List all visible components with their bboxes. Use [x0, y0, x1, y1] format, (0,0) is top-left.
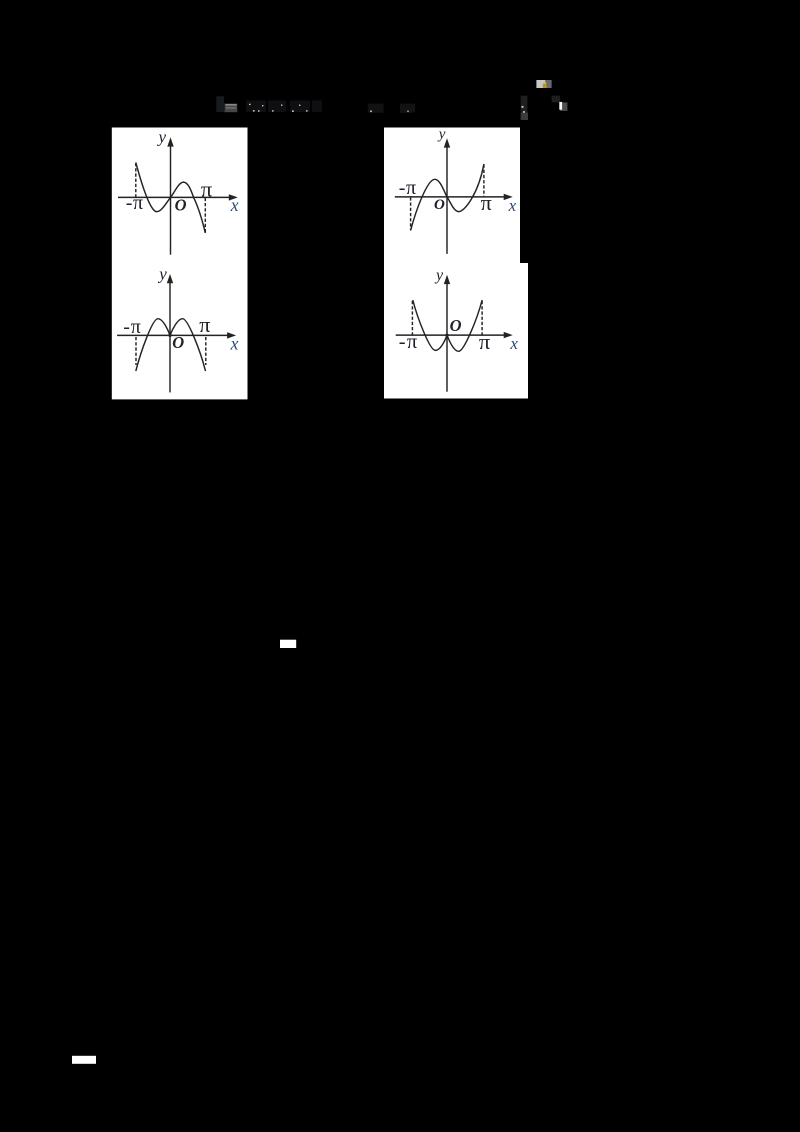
- white dash mid-page: [280, 640, 296, 648]
- D dashed line at -pi: [411, 301, 413, 335]
- B x-axis: [395, 196, 506, 198]
- A dashed line at -pi: [135, 163, 137, 197]
- white dash bottom-left: [72, 1056, 96, 1064]
- faint question text residue: middle glyphs: [368, 104, 415, 113]
- svg-text:y: y: [437, 127, 446, 143]
- C x-axis: [117, 334, 229, 336]
- svg-text:-π: -π: [399, 331, 419, 353]
- svg-text:π: π: [199, 312, 210, 337]
- svg-text:O: O: [175, 195, 187, 214]
- A x-axis: [118, 196, 231, 198]
- D y-axis: [446, 282, 448, 392]
- C curve: [136, 319, 206, 371]
- D y-axis arrowhead: [444, 275, 450, 284]
- D curve: [413, 300, 482, 351]
- white panel left (options A and C): [112, 128, 248, 400]
- D origin dot: [445, 334, 448, 337]
- faint question text residue: block 1: [216, 96, 224, 112]
- svg-text:O: O: [172, 333, 184, 352]
- svg-text:x: x: [508, 196, 517, 215]
- svg-text:π: π: [201, 176, 213, 201]
- C dashed line at -pi: [135, 337, 137, 365]
- A y-axis: [170, 144, 172, 255]
- B curve: [411, 164, 484, 231]
- svg-text:x: x: [509, 334, 518, 353]
- svg-text:-π: -π: [123, 316, 141, 338]
- B y-axis: [446, 145, 448, 254]
- A dashed line at +pi: [204, 198, 206, 233]
- D x-axis arrowhead: [504, 332, 513, 338]
- svg-text:-π: -π: [126, 192, 144, 214]
- svg-text:π: π: [481, 190, 492, 215]
- B dashed line at +pi: [483, 165, 485, 197]
- B y-axis arrowhead: [444, 138, 450, 147]
- A curve: [136, 163, 206, 234]
- svg-text:O: O: [450, 316, 462, 335]
- svg-text:O: O: [434, 197, 445, 213]
- toolbar-like light bar with yellow mark (top right): [536, 80, 551, 88]
- svg-text:x: x: [230, 334, 239, 354]
- svg-text:-π: -π: [399, 177, 417, 199]
- C y-axis arrowhead: [167, 274, 173, 283]
- svg-text:y: y: [434, 267, 444, 284]
- svg-text:x: x: [230, 195, 239, 215]
- C y-axis: [169, 281, 171, 392]
- C dashed line at +pi: [205, 337, 207, 365]
- faint question text residue: speckled glyphs left: [246, 101, 322, 113]
- faint question text residue: highlighted equals block: [225, 104, 238, 113]
- svg-text:y: y: [157, 265, 167, 284]
- white panel right-top (option B): [384, 128, 520, 264]
- C x-axis arrowhead: [227, 332, 236, 338]
- D dashed line at +pi: [481, 301, 483, 335]
- svg-text:y: y: [157, 128, 167, 147]
- D x-axis: [396, 334, 506, 336]
- C origin dot: [168, 334, 171, 337]
- A y-axis arrowhead: [167, 137, 173, 146]
- A x-axis arrowhead: [229, 194, 238, 200]
- svg-text:π: π: [479, 329, 491, 354]
- white panel right-bottom (option D): [384, 263, 528, 399]
- B dashed line at -pi: [410, 197, 412, 230]
- B x-axis arrowhead: [504, 194, 513, 200]
- faint question text residue: right cluster with fraction: [521, 96, 568, 120]
